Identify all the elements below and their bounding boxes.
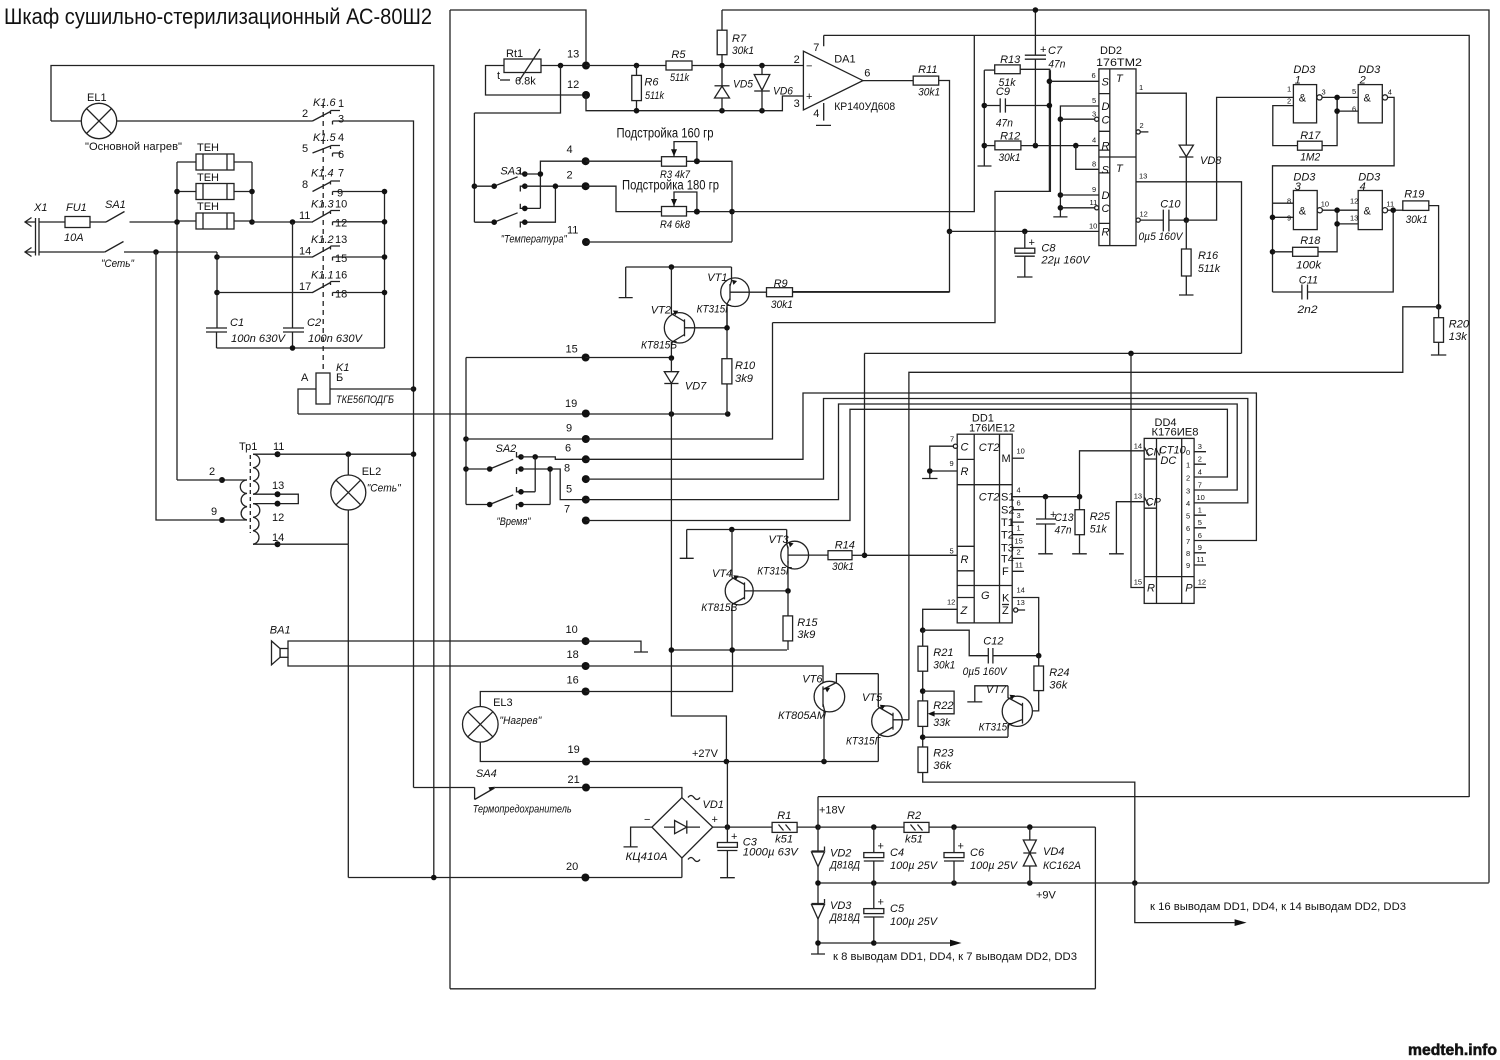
svg-text:11: 11 bbox=[1197, 555, 1205, 564]
svg-text:VD4: VD4 bbox=[1043, 846, 1064, 858]
svg-text:R17: R17 bbox=[1300, 130, 1321, 142]
transistor VT3 bbox=[757, 530, 808, 591]
wire DD2 pin2 stub bbox=[1136, 121, 1148, 134]
svg-text:19: 19 bbox=[568, 744, 580, 756]
svg-text:R: R bbox=[1147, 583, 1155, 595]
gate DD3.4 bbox=[1350, 171, 1394, 229]
svg-text:T4: T4 bbox=[1001, 554, 1014, 566]
wire S1 to DD4 CN bbox=[1080, 451, 1145, 497]
bridge rectifier VD1 bbox=[624, 796, 773, 878]
svg-text:12: 12 bbox=[335, 218, 347, 230]
wire bus net6 bbox=[586, 393, 1257, 541]
resistor R25 bbox=[1072, 497, 1111, 554]
svg-text:R6: R6 bbox=[644, 77, 659, 89]
svg-text:Подстройка 160 гр: Подстройка 160 гр bbox=[617, 126, 714, 141]
svg-text:R10: R10 bbox=[735, 360, 756, 372]
transistor VT7 bbox=[924, 684, 1033, 737]
svg-text:0: 0 bbox=[1186, 448, 1190, 457]
svg-text:S: S bbox=[1102, 165, 1110, 177]
svg-text:1: 1 bbox=[1017, 524, 1021, 533]
wire DD1 pin7 pin9 ground bbox=[922, 444, 957, 478]
svg-text:16: 16 bbox=[335, 270, 347, 282]
resistor R6 bbox=[632, 66, 665, 111]
svg-text:3: 3 bbox=[794, 98, 800, 110]
svg-text:1000µ 63V: 1000µ 63V bbox=[743, 847, 800, 859]
svg-text:T1: T1 bbox=[1001, 517, 1014, 529]
svg-text:4: 4 bbox=[567, 144, 573, 156]
svg-text:36k: 36k bbox=[1049, 680, 1067, 692]
svg-text:4: 4 bbox=[1092, 136, 1096, 145]
IC DD4 bbox=[1134, 417, 1206, 604]
svg-text:K1: K1 bbox=[336, 362, 349, 374]
label Podstroika 180 bbox=[622, 178, 719, 193]
svg-text:1: 1 bbox=[338, 98, 344, 110]
svg-text:2: 2 bbox=[1140, 121, 1144, 130]
svg-text:2: 2 bbox=[794, 54, 800, 66]
contact K1.3 bbox=[299, 199, 347, 230]
svg-text:K1.2: K1.2 bbox=[311, 234, 334, 246]
wire relay rail 414 bbox=[298, 411, 731, 417]
border top-right edge bbox=[722, 10, 1489, 883]
resistor R18 bbox=[1273, 224, 1338, 272]
svg-text:C11: C11 bbox=[1299, 275, 1318, 287]
svg-text:11: 11 bbox=[1386, 200, 1394, 209]
resistor R17 bbox=[1273, 97, 1337, 163]
transistor VT6 bbox=[778, 673, 878, 722]
transistor VT1 bbox=[697, 267, 750, 328]
svg-text:Тр1: Тр1 bbox=[239, 441, 257, 453]
svg-text:C: C bbox=[1102, 203, 1110, 215]
gate DD3.1 bbox=[1287, 64, 1326, 123]
border bottom edge bbox=[450, 988, 1095, 990]
capacitor C5 bbox=[864, 883, 939, 943]
svg-text:R13: R13 bbox=[1000, 54, 1021, 66]
svg-text:C5: C5 bbox=[890, 903, 905, 915]
svg-text:SA4: SA4 bbox=[476, 768, 497, 780]
svg-text:КТ315Г: КТ315Г bbox=[846, 736, 881, 748]
heater TEH1 bbox=[177, 142, 252, 170]
svg-text:13: 13 bbox=[1017, 598, 1025, 607]
svg-text:11: 11 bbox=[299, 210, 310, 222]
svg-text:FU1: FU1 bbox=[66, 202, 87, 214]
svg-text:КЦ410А: КЦ410А bbox=[626, 851, 668, 863]
node pin 7 bbox=[564, 504, 590, 525]
svg-text:D: D bbox=[1102, 101, 1110, 113]
svg-text:10: 10 bbox=[1321, 200, 1329, 209]
svg-text:19: 19 bbox=[565, 398, 577, 410]
switch SA3 bbox=[472, 113, 582, 246]
svg-text:R23: R23 bbox=[933, 748, 954, 760]
svg-text:12: 12 bbox=[1140, 210, 1148, 219]
svg-text:1: 1 bbox=[1198, 506, 1202, 515]
svg-text:2: 2 bbox=[1359, 75, 1366, 87]
svg-text:T2: T2 bbox=[1001, 530, 1014, 542]
wire pin15 row bbox=[586, 355, 675, 361]
svg-text:5: 5 bbox=[950, 547, 954, 556]
svg-text:12: 12 bbox=[567, 79, 579, 91]
wire +18V right drop bbox=[929, 824, 1095, 989]
svg-text:10: 10 bbox=[1089, 222, 1097, 231]
svg-text:Z: Z bbox=[1002, 605, 1009, 617]
svg-text:"Сеть": "Сеть" bbox=[101, 258, 135, 270]
svg-text:5: 5 bbox=[1092, 96, 1096, 105]
svg-text:"Время": "Время" bbox=[497, 516, 532, 528]
wire DD2 pin5 pin3 column bbox=[1053, 106, 1099, 217]
svg-text:2: 2 bbox=[1186, 474, 1190, 483]
svg-text:8: 8 bbox=[302, 179, 308, 191]
svg-text:36k: 36k bbox=[933, 760, 951, 772]
svg-text:к 16 выводам DD1, DD4, к 14 вы: к 16 выводам DD1, DD4, к 14 выводам DD2,… bbox=[1150, 901, 1406, 913]
svg-text:5: 5 bbox=[1198, 518, 1202, 527]
svg-text:+: + bbox=[878, 897, 884, 909]
svg-text:G: G bbox=[981, 590, 990, 602]
svg-text:10А: 10А bbox=[64, 232, 84, 244]
fuse FU1 bbox=[64, 202, 106, 244]
transistor VT2 bbox=[641, 267, 730, 359]
svg-text:9: 9 bbox=[1092, 185, 1096, 194]
svg-text:176ТМ2: 176ТМ2 bbox=[1096, 57, 1142, 69]
transformer Tr1 bbox=[209, 441, 298, 547]
svg-text:13: 13 bbox=[1139, 172, 1147, 181]
wire R4 net to DA1 supply riser bbox=[732, 36, 974, 212]
contact K1.5 bbox=[302, 132, 344, 161]
node pin 8 bbox=[564, 463, 590, 484]
svg-text:15: 15 bbox=[335, 253, 347, 265]
svg-text:3: 3 bbox=[1017, 511, 1021, 520]
speaker BA1 bbox=[270, 625, 586, 667]
svg-text:4: 4 bbox=[1017, 486, 1021, 495]
transistor VT5 bbox=[846, 674, 909, 762]
wire pin11 row bbox=[586, 241, 732, 243]
wire DD2 pin13 bbox=[1136, 172, 1242, 354]
svg-text:K1.5: K1.5 bbox=[313, 132, 337, 144]
svg-text:КТ805АМ: КТ805АМ bbox=[778, 710, 827, 722]
svg-text:+: + bbox=[712, 814, 718, 826]
capacitor C12 bbox=[923, 630, 1042, 678]
svg-text:R25: R25 bbox=[1090, 511, 1111, 523]
node pin 10 bbox=[566, 624, 590, 645]
svg-text:КТ315Г: КТ315Г bbox=[757, 566, 792, 578]
svg-text:6: 6 bbox=[565, 443, 571, 455]
connector X1 bbox=[25, 202, 105, 257]
svg-text:&: & bbox=[1299, 93, 1307, 105]
svg-text:11: 11 bbox=[1015, 561, 1023, 570]
svg-text:VT3: VT3 bbox=[769, 534, 790, 546]
svg-text:+: + bbox=[731, 831, 737, 843]
capacitor C9 bbox=[984, 86, 1049, 130]
svg-text:3: 3 bbox=[1092, 110, 1096, 119]
svg-text:C12: C12 bbox=[983, 635, 1003, 647]
svg-text:14: 14 bbox=[272, 532, 284, 544]
svg-text:ТЕН: ТЕН bbox=[197, 142, 219, 154]
svg-text:2: 2 bbox=[567, 170, 573, 182]
node pin 9 bbox=[566, 423, 590, 444]
capacitor C4 bbox=[864, 827, 939, 883]
op-amp DA1 bbox=[794, 35, 896, 125]
svg-text:Д818Д: Д818Д bbox=[828, 912, 860, 924]
wire C9 net down bbox=[1047, 70, 1053, 191]
wire TEH right bus bbox=[249, 162, 255, 225]
svg-text:S1: S1 bbox=[1001, 492, 1014, 504]
wire +27V rail bbox=[586, 711, 878, 765]
wire power frame top bbox=[818, 796, 1469, 798]
node pin 19 bbox=[565, 398, 590, 418]
svg-text:CT2: CT2 bbox=[979, 492, 1000, 504]
svg-text:ТЕН: ТЕН bbox=[197, 172, 219, 184]
contact K1.6 bbox=[302, 97, 344, 126]
svg-text:10: 10 bbox=[566, 624, 578, 636]
svg-text:12: 12 bbox=[947, 598, 955, 607]
wire pin18 to VT6 base bbox=[586, 666, 823, 686]
wire ground bus bottom bbox=[811, 940, 1077, 963]
svg-text:22µ 160V: 22µ 160V bbox=[1040, 254, 1091, 266]
svg-text:КТ815В: КТ815В bbox=[701, 602, 737, 614]
svg-text:R2: R2 bbox=[907, 810, 921, 822]
node pin 16 bbox=[567, 675, 590, 696]
node pin 4 bbox=[567, 144, 590, 165]
title bbox=[4, 4, 432, 29]
svg-text:VT6: VT6 bbox=[802, 673, 823, 685]
svg-text:C: C bbox=[961, 442, 969, 454]
wire VT3 collector rail bbox=[680, 527, 787, 559]
wire DD3.3 out bbox=[1322, 207, 1358, 226]
wire K1 right bus bbox=[341, 189, 387, 348]
svg-text:R7: R7 bbox=[732, 33, 747, 45]
node pin 21 bbox=[568, 774, 591, 792]
svg-text:А: А bbox=[301, 372, 309, 384]
svg-text:VT1: VT1 bbox=[707, 272, 727, 284]
IC DD1 bbox=[947, 412, 1025, 623]
resistor R24 bbox=[1032, 656, 1069, 711]
wire pin16 to VT4 emitter bbox=[586, 647, 735, 691]
wire DA1 output bbox=[863, 80, 913, 82]
svg-text:3k9: 3k9 bbox=[735, 373, 753, 385]
svg-text:9: 9 bbox=[1287, 214, 1291, 223]
svg-text:VD5: VD5 bbox=[733, 79, 754, 91]
svg-text:21: 21 bbox=[568, 774, 580, 786]
svg-text:47n: 47n bbox=[996, 118, 1013, 130]
node pin 5 bbox=[566, 484, 590, 504]
watermark medteh.info bbox=[1408, 1042, 1497, 1059]
border left edge bbox=[449, 10, 451, 989]
svg-text:511k: 511k bbox=[645, 90, 664, 102]
wire rail C8 pin10 bbox=[950, 229, 1099, 235]
svg-text:11: 11 bbox=[273, 441, 284, 453]
svg-text:КР140УД608: КР140УД608 bbox=[834, 101, 895, 113]
trimmer R3 bbox=[586, 142, 732, 242]
wire R9 to rails bbox=[793, 231, 950, 291]
svg-text:5: 5 bbox=[566, 484, 572, 496]
svg-text:+: + bbox=[1040, 44, 1046, 56]
svg-text:12: 12 bbox=[1198, 578, 1206, 587]
svg-text:9: 9 bbox=[950, 459, 954, 468]
svg-text:P: P bbox=[1185, 583, 1193, 595]
svg-text:1М2: 1М2 bbox=[1300, 152, 1320, 164]
lamp EL2 bbox=[331, 454, 402, 544]
gate DD3.2 bbox=[1352, 64, 1392, 123]
wire DD1 K loop to C12 bbox=[1012, 598, 1038, 656]
svg-text:medteh.info: medteh.info bbox=[1408, 1042, 1497, 1059]
heater TEH3 bbox=[177, 201, 252, 229]
wire mid rail 9V bbox=[815, 880, 1489, 901]
svg-text:8: 8 bbox=[1092, 160, 1096, 169]
wire Rt1 to SA3 bbox=[474, 66, 560, 114]
svg-text:4: 4 bbox=[1388, 88, 1392, 97]
svg-text:VT7: VT7 bbox=[986, 684, 1007, 696]
svg-text:VD7: VD7 bbox=[685, 381, 707, 393]
svg-text:47n: 47n bbox=[1048, 59, 1065, 71]
node pin 12 bbox=[567, 79, 590, 99]
svg-text:K1.6: K1.6 bbox=[313, 97, 337, 109]
wire K1.6 to relay column bbox=[341, 121, 416, 788]
zener VD4 bbox=[1023, 827, 1081, 883]
svg-text:R15: R15 bbox=[797, 617, 818, 629]
svg-text:Д818Д: Д818Д bbox=[828, 860, 860, 872]
capacitor C2 bbox=[283, 317, 364, 348]
svg-text:47n: 47n bbox=[1055, 525, 1072, 537]
wire DD2 pin8 bbox=[1076, 146, 1099, 170]
svg-text:5: 5 bbox=[302, 143, 308, 155]
svg-text:VT4: VT4 bbox=[712, 568, 732, 580]
diode VD5 bbox=[715, 66, 754, 111]
svg-text:КТ315Г: КТ315Г bbox=[697, 304, 732, 316]
svg-text:"Сеть": "Сеть" bbox=[367, 483, 402, 495]
svg-text:2: 2 bbox=[1017, 548, 1021, 557]
wire VD7 net lower bbox=[669, 414, 787, 762]
resistor R16 bbox=[1179, 220, 1220, 295]
wire pin12 bottom rail bbox=[586, 95, 803, 113]
svg-text:7: 7 bbox=[564, 504, 570, 516]
svg-text:6: 6 bbox=[1198, 531, 1202, 540]
svg-text:C6: C6 bbox=[970, 847, 985, 859]
svg-text:13: 13 bbox=[335, 234, 347, 246]
svg-text:EL2: EL2 bbox=[362, 466, 382, 478]
svg-text:SA3: SA3 bbox=[500, 166, 522, 178]
svg-text:BA1: BA1 bbox=[270, 625, 291, 637]
svg-text:R12: R12 bbox=[1000, 131, 1020, 143]
svg-text:VT2: VT2 bbox=[651, 304, 671, 316]
border top-left wire to node 13 bbox=[450, 10, 586, 66]
svg-text:14: 14 bbox=[1017, 586, 1025, 595]
svg-text:13k: 13k bbox=[1449, 331, 1467, 343]
node pin 11 bbox=[567, 225, 590, 247]
resistor R20 bbox=[1431, 304, 1470, 355]
svg-text:&: & bbox=[1364, 93, 1372, 105]
svg-text:7: 7 bbox=[950, 435, 954, 444]
resistor R21 bbox=[918, 630, 955, 701]
wire pin9 riser bbox=[586, 323, 773, 439]
svg-text:17: 17 bbox=[299, 281, 311, 293]
svg-text:2n2: 2n2 bbox=[1296, 304, 1317, 316]
svg-text:0µ5 160V: 0µ5 160V bbox=[1139, 231, 1185, 243]
svg-text:8: 8 bbox=[564, 463, 570, 475]
node R11 R9 junction bbox=[947, 229, 953, 235]
wire mains L to K1.3 bbox=[252, 219, 313, 225]
svg-text:14: 14 bbox=[1134, 442, 1142, 451]
svg-text:VD2: VD2 bbox=[830, 848, 851, 860]
svg-text:30k1: 30k1 bbox=[918, 87, 940, 99]
wire DD1 S1 net bbox=[1012, 494, 1082, 500]
svg-text:20: 20 bbox=[566, 861, 578, 873]
svg-text:DC: DC bbox=[1160, 455, 1176, 467]
diode VD8 bbox=[1179, 145, 1222, 223]
svg-text:9: 9 bbox=[1186, 561, 1190, 570]
wire Tr1 pin2 feed bbox=[177, 479, 222, 481]
svg-text:VD3: VD3 bbox=[830, 900, 852, 912]
resistor R23 bbox=[918, 747, 1135, 883]
capacitor C8 bbox=[1015, 231, 1091, 277]
wire C1 C2 bottom rail bbox=[217, 345, 385, 351]
svg-text:2: 2 bbox=[302, 108, 308, 120]
svg-text:F: F bbox=[1002, 566, 1009, 578]
svg-text:EL3: EL3 bbox=[493, 697, 513, 709]
wire bus net7 bbox=[586, 409, 1228, 520]
resistor R19 bbox=[1388, 188, 1439, 306]
svg-text:511k: 511k bbox=[1198, 263, 1220, 275]
svg-text:ТКЕ56ПОДГБ: ТКЕ56ПОДГБ bbox=[336, 394, 394, 406]
gate DD3.3 bbox=[1287, 171, 1329, 229]
svg-text:VD1: VD1 bbox=[703, 799, 724, 811]
diode VD7 bbox=[664, 358, 707, 414]
svg-text:K1.4: K1.4 bbox=[311, 168, 334, 180]
svg-text:−: − bbox=[644, 814, 650, 826]
capacitor C10 bbox=[1136, 199, 1186, 244]
wire R13 left column bbox=[978, 70, 992, 166]
svg-text:100µ 25V: 100µ 25V bbox=[890, 860, 939, 872]
svg-text:100n 630V: 100n 630V bbox=[308, 333, 364, 345]
svg-text:18: 18 bbox=[567, 649, 579, 661]
svg-text:DD2: DD2 bbox=[1100, 45, 1122, 57]
svg-text:30k1: 30k1 bbox=[1406, 214, 1428, 226]
svg-text:9: 9 bbox=[211, 506, 217, 518]
svg-text:VT5: VT5 bbox=[862, 692, 883, 704]
resistor R1 bbox=[772, 810, 818, 846]
svg-text:6: 6 bbox=[1186, 524, 1190, 533]
svg-text:6: 6 bbox=[338, 149, 344, 161]
svg-text:6.8k: 6.8k bbox=[515, 76, 536, 88]
svg-text:4: 4 bbox=[813, 108, 819, 120]
svg-text:R16: R16 bbox=[1198, 250, 1219, 262]
svg-text:3: 3 bbox=[1295, 181, 1302, 193]
svg-text:6: 6 bbox=[1092, 71, 1096, 80]
svg-text:13: 13 bbox=[1350, 214, 1358, 223]
svg-text:DA1: DA1 bbox=[834, 54, 855, 66]
wire mains N column bbox=[153, 249, 220, 328]
switch SA2 bbox=[463, 358, 582, 529]
node pin 13 bbox=[567, 49, 590, 70]
label Podstroika 160 bbox=[617, 126, 714, 141]
svg-text:+: + bbox=[1029, 237, 1035, 249]
svg-text:R: R bbox=[961, 466, 969, 478]
capacitor C3 bbox=[717, 762, 799, 878]
svg-text:R11: R11 bbox=[918, 64, 937, 76]
svg-text:7: 7 bbox=[1186, 537, 1190, 546]
trimmer R22 bbox=[918, 691, 954, 747]
wire K1.1 left bbox=[217, 292, 313, 294]
svg-text:13: 13 bbox=[272, 480, 284, 492]
svg-text:C: C bbox=[1102, 115, 1110, 127]
svg-text:15: 15 bbox=[1015, 537, 1023, 546]
svg-text:Rt1: Rt1 bbox=[506, 48, 523, 60]
svg-text:2: 2 bbox=[1287, 97, 1291, 106]
resistor R10 bbox=[722, 359, 756, 414]
resistor R12 bbox=[984, 131, 1099, 164]
wire bus net5 bbox=[586, 404, 1237, 500]
svg-text:к 8 выводам DD1, DD4, к 7 выво: к 8 выводам DD1, DD4, к 7 выводам DD2, D… bbox=[833, 951, 1077, 963]
wire rail 322 bbox=[773, 70, 1051, 323]
resistor R14 bbox=[809, 540, 865, 574]
svg-text:R: R bbox=[961, 554, 969, 566]
